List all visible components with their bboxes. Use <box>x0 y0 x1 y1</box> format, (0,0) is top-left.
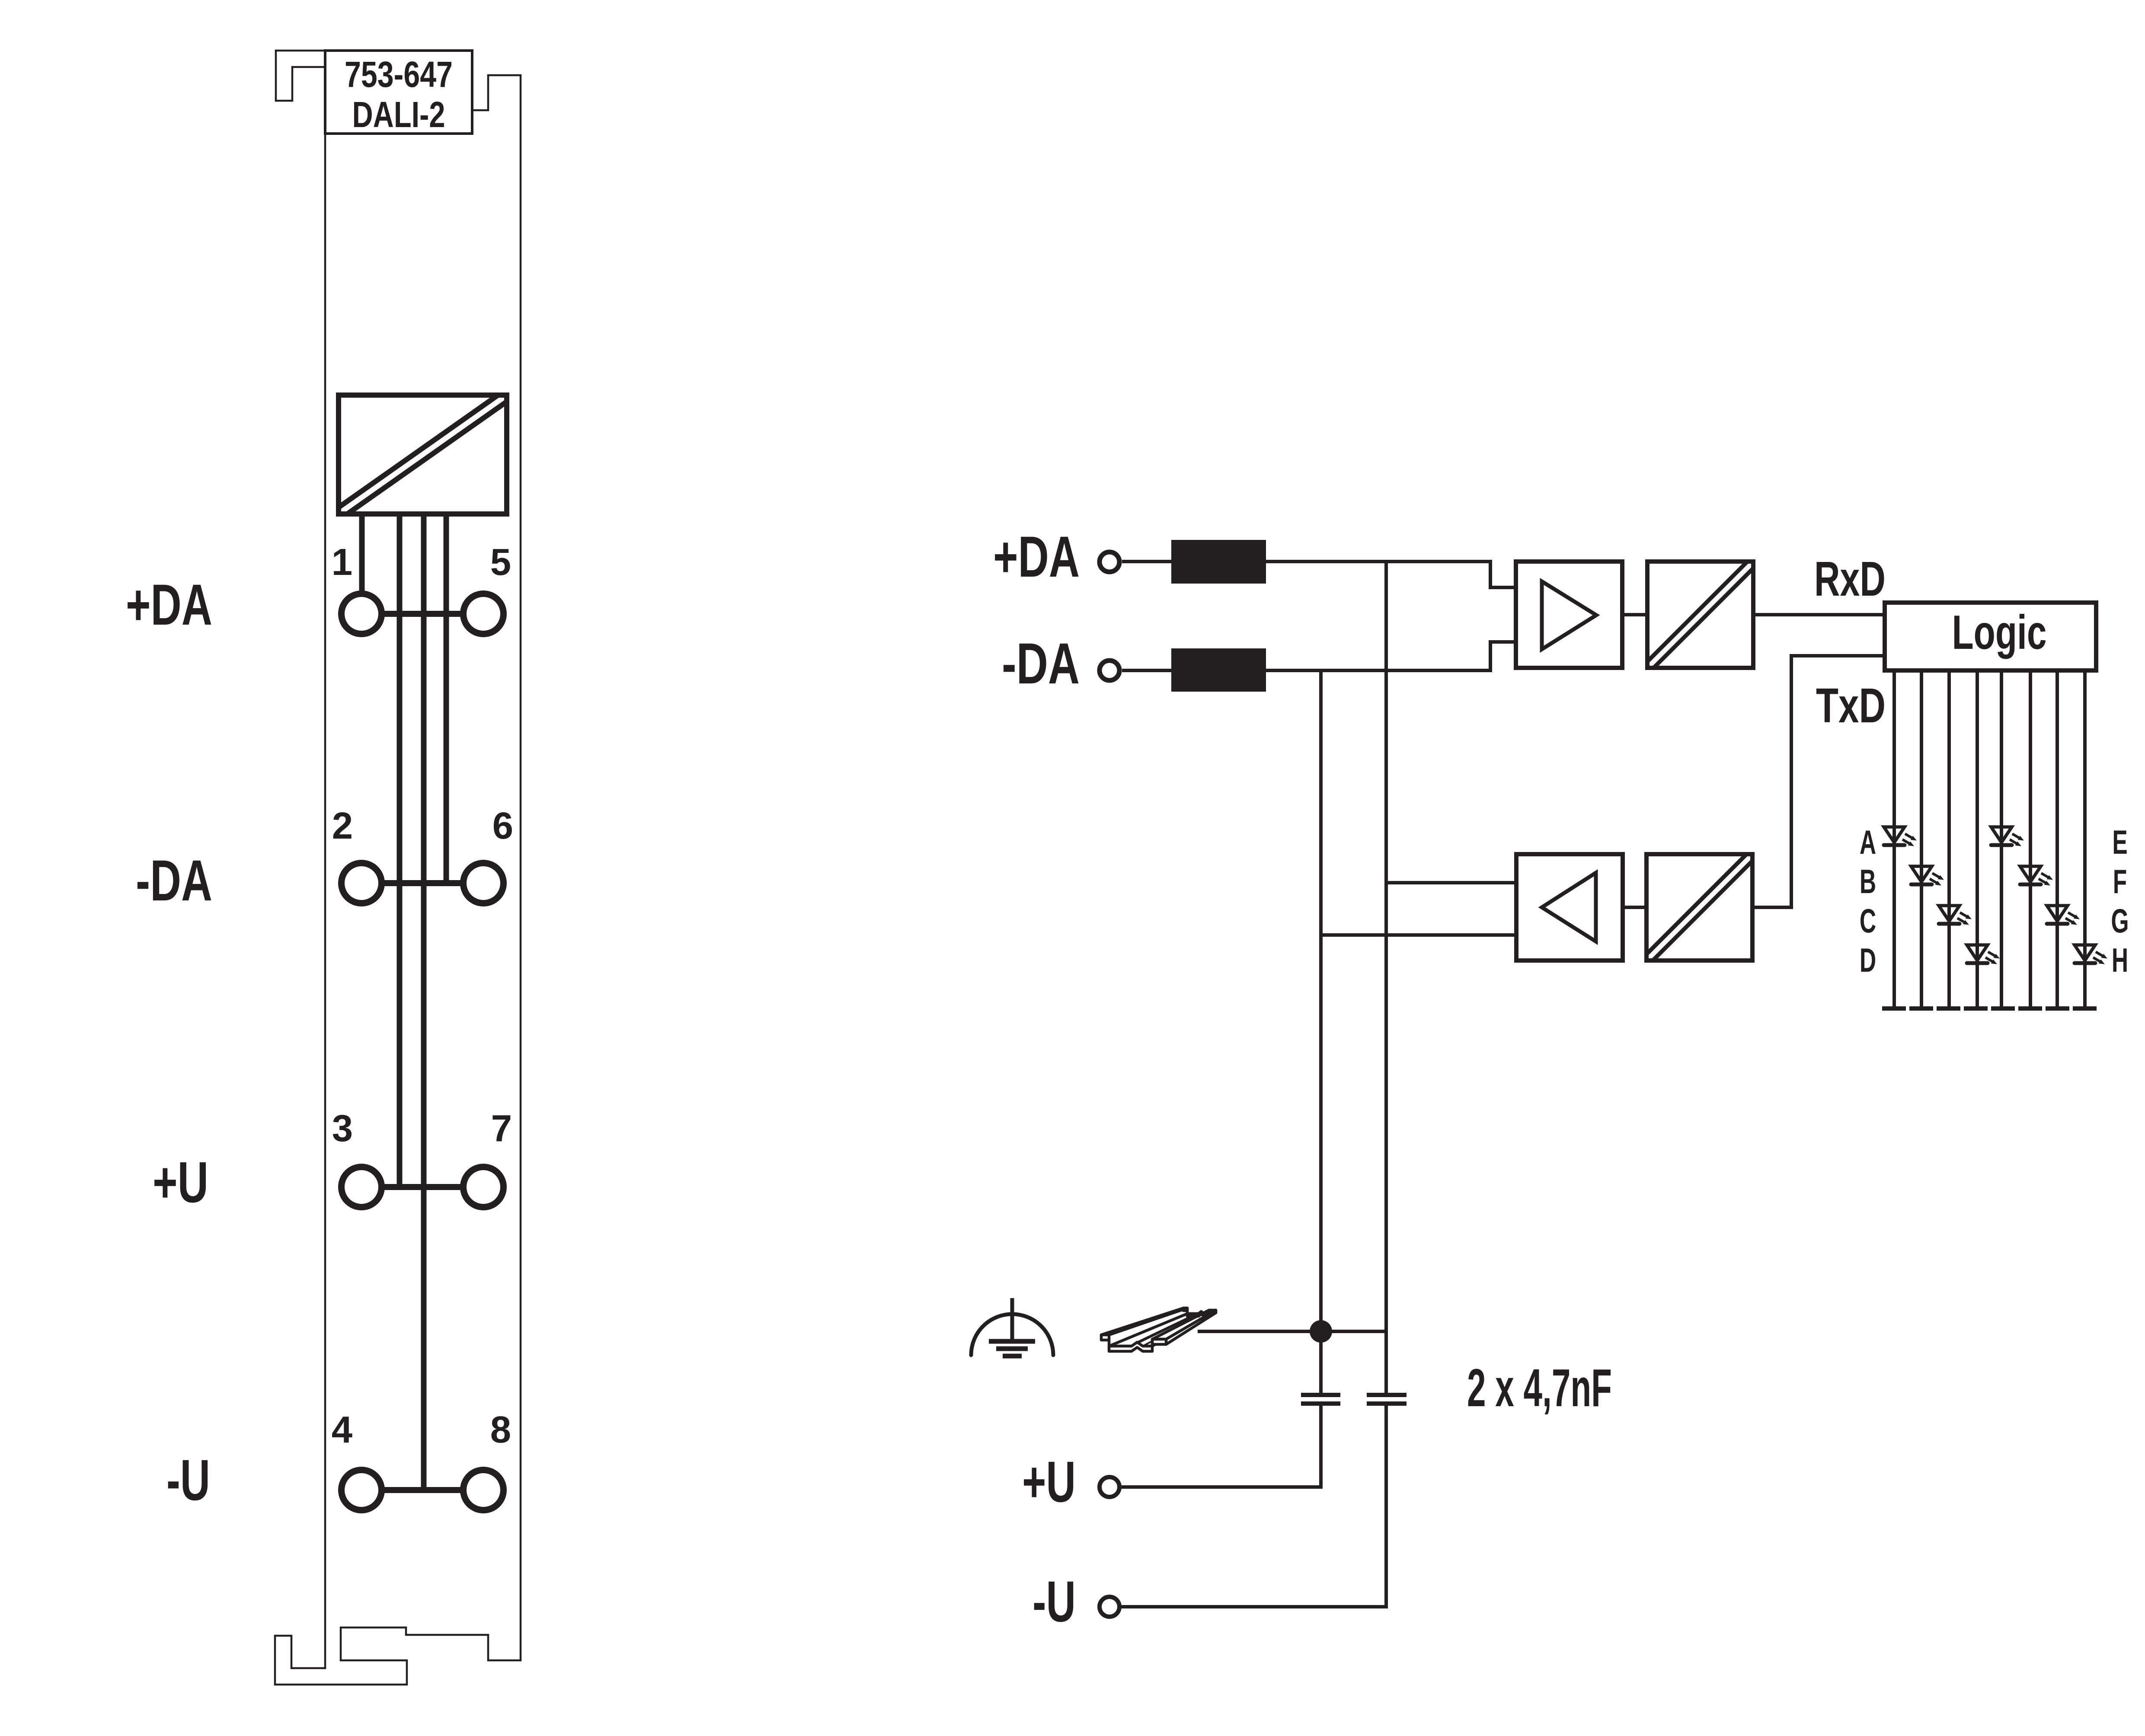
isolator RxD <box>1643 558 1758 672</box>
terminal row 4-8 connector <box>361 1487 483 1493</box>
terminal 5 <box>464 594 504 634</box>
svg-text:2: 2 <box>332 805 353 847</box>
module label +DA <box>126 573 212 637</box>
svg-text:7: 7 <box>491 1107 512 1149</box>
module label -DA <box>136 849 212 913</box>
svg-text:+U: +U <box>1022 1450 1076 1514</box>
terminal row 1-5 connector <box>361 611 483 617</box>
module top-right notch <box>472 75 521 110</box>
internal wire B to terminal row 3 <box>397 512 403 1187</box>
terminal -U <box>1100 1597 1119 1617</box>
LED A <box>1884 827 1917 846</box>
svg-text:+U: +U <box>153 1150 208 1215</box>
svg-text:+DA: +DA <box>993 525 1080 589</box>
svg-text:RxD: RxD <box>1814 552 1886 606</box>
dashed common line under LEDs <box>1882 1006 2097 1011</box>
terminal 2 <box>342 863 382 903</box>
filter choke +DA <box>1171 540 1266 584</box>
wire TxD from logic to isolator <box>1753 656 1885 907</box>
svg-text:B: B <box>1860 863 1876 901</box>
wire RxD to logic <box>1753 613 1885 616</box>
terminal 8 <box>464 1470 504 1510</box>
module top-left mounting clip <box>276 51 325 101</box>
LED H <box>2075 945 2107 964</box>
logic output lines to LEDs <box>1894 670 2085 1008</box>
LED label E <box>2112 824 2127 862</box>
LED D <box>1967 945 2000 964</box>
wire receiver to isolator <box>1622 613 1647 616</box>
bus wire v2 lower part to -U <box>1384 1404 1388 1607</box>
electronics isolation block <box>333 392 512 517</box>
label text DALI-2 <box>352 94 445 135</box>
label +DA <box>993 525 1080 589</box>
label RxD <box>1814 552 1886 606</box>
wire +DA to filter <box>1122 560 1171 563</box>
pin number 3 <box>332 1107 353 1149</box>
module label -U <box>166 1448 210 1513</box>
terminal 6 <box>464 863 504 903</box>
svg-text:5: 5 <box>490 541 511 583</box>
pin number 1 <box>332 541 352 583</box>
module outline left edge <box>324 51 326 1668</box>
LED label A <box>1860 824 1876 862</box>
terminal row 3-7 connector <box>361 1184 483 1190</box>
terminal 3 <box>342 1167 382 1207</box>
part number label box <box>325 51 472 134</box>
pin number 4 <box>332 1409 352 1451</box>
pin number 2 <box>332 805 353 847</box>
isolator TxD <box>1642 850 1757 965</box>
LED label F <box>2113 863 2127 901</box>
svg-text:-DA: -DA <box>136 849 212 913</box>
svg-text:Logic: Logic <box>1952 606 2047 659</box>
label TxD <box>1816 678 1886 733</box>
LED label G <box>2111 903 2129 940</box>
LED B <box>1911 866 1944 886</box>
LED F <box>2020 866 2053 886</box>
label 2 x 4,7nF <box>1467 1359 1612 1418</box>
pin number 6 <box>492 805 513 847</box>
terminal row 2-6 connector <box>361 880 483 886</box>
wire isolator to transmitter <box>1623 906 1646 909</box>
svg-text:753-647: 753-647 <box>345 54 453 95</box>
LED E <box>1991 827 2024 846</box>
internal wire D to terminal row 2 <box>444 512 449 883</box>
wire transmitter upper output to v2 <box>1386 881 1516 884</box>
terminal 1 <box>342 594 382 634</box>
terminal +U <box>1100 1477 1119 1497</box>
capacitor C1 plates <box>1301 1395 1340 1404</box>
receiver amplifier box <box>1516 562 1622 668</box>
svg-text:A: A <box>1860 824 1876 862</box>
terminal 7 <box>464 1167 504 1207</box>
svg-text:3: 3 <box>332 1107 353 1149</box>
wire -U to v2 <box>1122 1605 1388 1607</box>
svg-text:G: G <box>2111 903 2129 940</box>
pin number 5 <box>490 541 511 583</box>
LED C <box>1939 906 1972 925</box>
svg-text:-U: -U <box>1033 1570 1076 1634</box>
module bottom outline with DIN-rail foot <box>275 1627 521 1685</box>
svg-text:1: 1 <box>332 541 352 583</box>
module label +U <box>153 1150 208 1215</box>
bus wire v1 from -DA down <box>1319 670 1323 1395</box>
pin number 8 <box>490 1409 511 1451</box>
svg-text:DALI-2: DALI-2 <box>352 94 445 135</box>
wire +DA to receiver <box>1266 562 1516 587</box>
internal wire C to terminal row 4 <box>421 512 427 1490</box>
svg-text:-U: -U <box>166 1448 210 1513</box>
svg-text:C: C <box>1860 903 1876 940</box>
svg-text:4: 4 <box>332 1409 352 1451</box>
wire DIN rail to junction <box>1198 1330 1386 1333</box>
svg-text:TxD: TxD <box>1816 678 1886 733</box>
svg-text:F: F <box>2113 863 2127 901</box>
wire -DA to filter <box>1122 669 1171 672</box>
junction dot <box>1310 1320 1332 1343</box>
terminal +DA <box>1100 552 1119 572</box>
LED label H <box>2112 942 2128 980</box>
transmitter amplifier box <box>1516 854 1623 961</box>
svg-text:2 x 4,7nF: 2 x 4,7nF <box>1467 1359 1612 1418</box>
LED label C <box>1860 903 1876 940</box>
label text 753-647 <box>345 54 453 95</box>
pin number 7 <box>491 1107 512 1149</box>
wire +U to v1 <box>1122 1485 1323 1487</box>
svg-text:H: H <box>2112 942 2128 980</box>
filter choke -DA <box>1171 648 1266 692</box>
svg-text:8: 8 <box>490 1409 511 1451</box>
ground symbol <box>971 1298 1053 1356</box>
label -U <box>1033 1570 1076 1634</box>
LED label D <box>1860 942 1876 980</box>
terminal -DA <box>1100 661 1119 680</box>
label +U <box>1022 1450 1076 1514</box>
bus wire v1 lower part to +U <box>1319 1404 1323 1487</box>
LED G <box>2047 906 2080 925</box>
bus wire v2 from +DA down <box>1384 562 1388 1395</box>
svg-text:+DA: +DA <box>126 573 212 637</box>
internal wire A to terminal 1 <box>359 512 365 597</box>
LED label B <box>1860 863 1876 901</box>
module outline right edge <box>520 75 522 1660</box>
DIN rail icon <box>1101 1308 1216 1351</box>
svg-text:D: D <box>1860 942 1876 980</box>
capacitor C2 plates <box>1367 1395 1407 1404</box>
label -DA <box>1002 632 1080 696</box>
svg-text:E: E <box>2112 824 2127 862</box>
svg-text:-DA: -DA <box>1002 632 1080 696</box>
wire transmitter lower output to v1 <box>1321 933 1516 937</box>
terminal 4 <box>342 1470 382 1510</box>
svg-text:6: 6 <box>492 805 513 847</box>
wire -DA to receiver <box>1266 642 1516 670</box>
logic block <box>1885 603 2096 670</box>
